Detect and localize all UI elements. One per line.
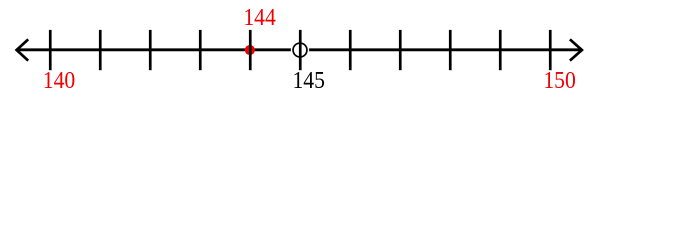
tick 144 (drawn over red point) — [249, 30, 252, 70]
tick 146 — [349, 30, 352, 70]
tick 141 — [99, 30, 102, 70]
right arrowhead — [570, 39, 582, 60]
filled red point at 144 — [245, 45, 255, 55]
tick 148 — [449, 30, 452, 70]
svg-text:150: 150 — [543, 68, 576, 94]
svg-text:144: 144 — [243, 5, 276, 31]
white halo under open circle (erases axis line) — [291, 41, 309, 59]
left arrowhead — [17, 39, 29, 60]
tick 147 — [399, 30, 402, 70]
number line axis shaft — [16, 48, 582, 51]
svg-text:140: 140 — [43, 68, 76, 94]
svg-text:145: 145 — [292, 68, 325, 94]
open circle at 145 (white fill over axis) — [293, 43, 307, 57]
tick 142 — [149, 30, 152, 70]
tick 149 — [499, 30, 502, 70]
tick 143 — [199, 30, 202, 70]
tick 140 — [49, 30, 52, 70]
tick 150 — [549, 30, 552, 70]
tick 145 (drawn over open circle) — [299, 30, 302, 70]
